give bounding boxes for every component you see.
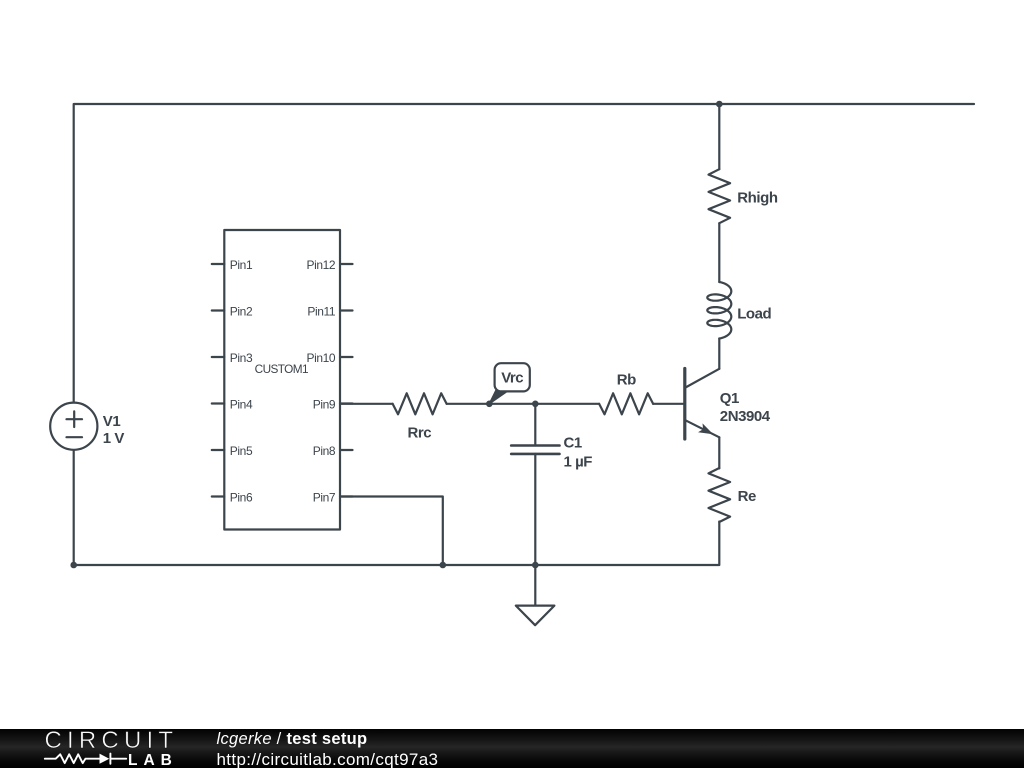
pin stub Pin3: [212, 356, 225, 358]
svg-text:Pin6: Pin6: [230, 491, 253, 505]
capacitor C1: [511, 446, 559, 454]
wire left rail lower: [73, 450, 75, 565]
pin stub Pin5: [212, 449, 225, 451]
footer url: [217, 750, 439, 768]
wire emitter down: [718, 437, 720, 468]
svg-text:Pin12: Pin12: [306, 258, 335, 272]
pin stub Pin8: [340, 449, 353, 451]
svg-text:Pin11: Pin11: [307, 305, 336, 319]
svg-text:Pin3: Pin3: [230, 351, 253, 365]
svg-text:Pin2: Pin2: [230, 305, 253, 319]
pin stub Pin1: [212, 263, 225, 265]
ground: [516, 565, 555, 625]
svg-text:C1: C1: [564, 434, 582, 451]
svg-text:CUSTOM1: CUSTOM1: [255, 362, 308, 376]
pin stub Pin4: [212, 402, 225, 404]
svg-text:Pin8: Pin8: [313, 444, 336, 458]
op-amp CUSTOM1 box: [224, 230, 340, 530]
node junction Vrc: [486, 401, 493, 408]
svg-text:Pin10: Pin10: [306, 351, 335, 365]
node junction gnd: [532, 562, 539, 569]
node junction C1 top: [532, 401, 539, 408]
svg-text:1 µF: 1 µF: [564, 453, 593, 470]
svg-text:Pin7: Pin7: [313, 491, 336, 505]
svg-text:Pin1: Pin1: [230, 258, 253, 272]
footer title: [217, 730, 368, 749]
pin stub Pin12: [340, 263, 353, 265]
svg-text:2N3904: 2N3904: [720, 408, 771, 425]
wire pin9 to base: [340, 403, 393, 405]
svg-text:Load: Load: [737, 305, 771, 322]
pin stub Pin7: [340, 495, 353, 497]
wire top rail: [74, 104, 974, 403]
footer bar: [0, 729, 1024, 768]
svg-text:Vrc: Vrc: [501, 369, 523, 386]
node junction top: [716, 101, 723, 108]
svg-text:1 V: 1 V: [103, 430, 125, 447]
svg-text:Pin5: Pin5: [230, 444, 253, 458]
resistor Rhigh: [709, 169, 731, 223]
logo resistor-diode icon: [0, 729, 210, 768]
svg-text:Re: Re: [738, 488, 756, 505]
pin stub Pin9: [340, 402, 353, 404]
voltage source V1: [50, 403, 97, 450]
svg-text:Q1: Q1: [720, 390, 739, 407]
wire C1 leads: [534, 404, 536, 446]
resistor Re: [709, 468, 731, 522]
pin stub Pin10: [340, 356, 353, 358]
resistor Rrc: [393, 393, 447, 414]
svg-text:Pin9: Pin9: [313, 398, 336, 412]
CircuitLab logo text: [45, 727, 179, 755]
wire bottom rail: [74, 522, 720, 566]
transistor Q1: [685, 369, 720, 440]
node junction V1 bottom: [70, 562, 77, 569]
svg-text:Rrc: Rrc: [408, 425, 432, 442]
wire pin7 down: [340, 497, 443, 566]
resistor Rb: [599, 393, 653, 414]
pin stub Pin11: [340, 309, 353, 311]
wire collector branch: [718, 104, 720, 169]
node Vrc flag: [489, 363, 530, 404]
node junction pin7: [440, 562, 447, 569]
svg-text:Rb: Rb: [617, 371, 636, 388]
inductor Load: [707, 282, 731, 339]
svg-text:Rhigh: Rhigh: [737, 189, 778, 206]
pin stub Pin2: [212, 309, 225, 311]
pin stub Pin6: [212, 495, 225, 497]
svg-text:V1: V1: [103, 413, 121, 430]
svg-text:Pin4: Pin4: [230, 398, 253, 412]
